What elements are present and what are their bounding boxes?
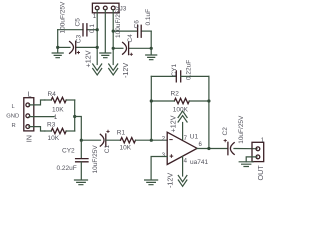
connector J3 (power header) [92, 3, 119, 13]
node input to feedback [150, 139, 153, 142]
svg-text:L: L [28, 89, 32, 98]
svg-text:ua741: ua741 [190, 159, 208, 166]
capacitor C1 (polarized, in signal path) [100, 134, 104, 146]
capacitor C6 plates [138, 25, 142, 37]
supply arrow +12V (up, pin 7) [178, 111, 187, 122]
wire pin 3 to ground [151, 157, 167, 180]
svg-text:10uF/25V: 10uF/25V [238, 115, 245, 144]
svg-text:0.1uF: 0.1uF [145, 9, 152, 26]
connector IN (input jack) [24, 98, 34, 131]
plus sign C4 [130, 53, 133, 56]
wire from R pin to R3 [29, 127, 45, 131]
svg-text:0.22uF: 0.22uF [57, 165, 77, 172]
wire +12V vertical from J3 pin1 [96, 10, 98, 65]
ground (CY2) [75, 180, 88, 185]
svg-text:R3: R3 [47, 122, 56, 129]
wire -12V vertical from J3 pin3 [112, 10, 114, 65]
supply arrow +12V (down) [93, 64, 102, 75]
resistor R4 [51, 97, 66, 102]
plus sign (non-inverting input) [170, 154, 174, 158]
svg-text:-12V: -12V [121, 63, 130, 78]
resistor R1 [121, 138, 136, 143]
svg-text:10K: 10K [52, 107, 64, 114]
svg-text:R: R [12, 123, 16, 129]
svg-text:C6: C6 [134, 20, 141, 29]
svg-text:0.22uF: 0.22uF [185, 60, 192, 80]
wire output to C2 [197, 148, 228, 150]
svg-text:100uF/25V: 100uF/25V [60, 1, 67, 33]
node R2 left [150, 99, 153, 102]
wire lower right rail to C4 [113, 47, 123, 49]
wire pin 7 supply [182, 123, 184, 140]
wire GND vertical from J3 pin2 [104, 10, 106, 53]
ground (power mid) [100, 53, 111, 58]
wire GND pin stub [29, 116, 54, 118]
wire C1 to R1 [106, 139, 121, 141]
svg-text:+12V: +12V [168, 115, 177, 132]
ground (right) [146, 55, 157, 60]
wire C2 to OUT [234, 148, 257, 150]
wire lower left rail to C3 [76, 46, 98, 48]
svg-text:U1: U1 [190, 133, 199, 140]
svg-text:100K: 100K [173, 107, 189, 114]
svg-text:C4: C4 [127, 34, 134, 43]
capacitor C2 (polarized) [227, 142, 229, 154]
plus sign C2 [224, 139, 227, 142]
svg-text:R2: R2 [171, 91, 180, 98]
junction dots left power [96, 28, 99, 31]
wire mixer junction vertical [74, 100, 76, 131]
capacitor C3 (polarized) [75, 41, 77, 54]
wire feedback left vertical [150, 76, 152, 140]
svg-text:GND: GND [6, 113, 19, 119]
svg-text:R1: R1 [117, 130, 126, 137]
node CY2 branch [80, 139, 83, 142]
svg-text:10uF/25V: 10uF/25V [92, 145, 99, 174]
svg-text:C1: C1 [104, 145, 111, 154]
wire node to C1 [81, 139, 100, 141]
svg-text:0.1: 0.1 [89, 24, 96, 33]
plus sign C1 [106, 130, 109, 133]
wire feedback right vertical [208, 76, 210, 148]
svg-text:100uF/25V: 100uF/25V [115, 6, 122, 38]
node output/feedback [207, 147, 210, 150]
wire right vertical to ground [150, 31, 152, 55]
connector OUT [252, 142, 264, 161]
capacitor CY2 [80, 140, 82, 158]
svg-text:C2: C2 [222, 127, 229, 136]
svg-text:+12V: +12V [84, 50, 93, 67]
supply arrow -12V (down) [109, 64, 118, 75]
resistor R2 [174, 98, 189, 103]
wire mix node to C1 branch [75, 117, 82, 141]
svg-text:-12V: -12V [166, 173, 175, 188]
node mix junction [73, 115, 76, 118]
minus sign (inverting input) [169, 139, 172, 141]
wire from L pin to R4 [29, 100, 45, 105]
capacitor CY1 [176, 71, 180, 82]
junction dots right power [112, 30, 115, 33]
wire upper right rail to C6 [113, 30, 137, 32]
svg-text:CY1: CY1 [171, 63, 178, 76]
svg-text:C3: C3 [75, 35, 82, 44]
svg-text:C5: C5 [75, 18, 82, 27]
wire CY1 right [181, 75, 209, 77]
wire CY1 left [151, 75, 176, 77]
capacitor C5 plates [83, 24, 87, 36]
svg-text:IN: IN [24, 135, 33, 142]
svg-text:R4: R4 [48, 91, 57, 98]
ground (OUT) [239, 162, 253, 167]
svg-text:10K: 10K [48, 135, 60, 142]
capacitor C4 (polarized) [128, 42, 130, 55]
wire OUT pin2 to ground [246, 157, 257, 162]
svg-text:CY2: CY2 [62, 147, 75, 154]
wire pin 4 supply [182, 156, 184, 176]
resistor R3 [51, 128, 66, 133]
node R2 right [207, 99, 210, 102]
plus sign C3 [77, 51, 80, 54]
svg-text:OUT: OUT [256, 165, 265, 181]
wire left vertical to ground [57, 30, 59, 53]
op-amp U1 triangle [167, 132, 197, 164]
svg-text:10K: 10K [120, 144, 132, 151]
supply arrow -12V (down, pin 4) [178, 176, 187, 187]
ground (pin 3) [145, 180, 158, 185]
wire upper left rail to C5 [87, 29, 97, 31]
ground (left) [52, 53, 63, 58]
